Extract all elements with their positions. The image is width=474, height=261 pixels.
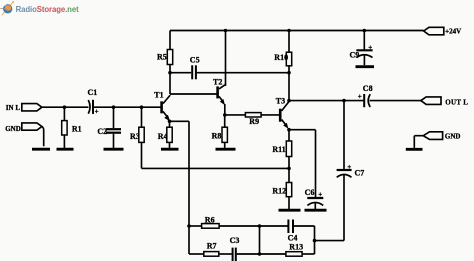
wire GND right lead [414, 136, 423, 148]
svg-text:R7: R7 [207, 242, 217, 251]
node R3 input [140, 105, 144, 109]
resistor R12 [286, 183, 291, 197]
svg-text:C7: C7 [355, 168, 365, 177]
wire feedback from T1 emitter to bottom network [170, 121, 190, 254]
node C2 input [112, 105, 116, 109]
ground R8 [216, 148, 236, 151]
wire R5 bottom lead [169, 65, 171, 73]
transistor T1 [162, 95, 171, 121]
node C5 R10 [287, 71, 291, 75]
svg-text:T2: T2 [213, 77, 222, 86]
wire C5 to R10 bottom [197, 72, 289, 74]
wire bottom ladder right vertical [314, 226, 316, 254]
svg-text:C2: C2 [97, 127, 107, 136]
wire C7 branch [343, 101, 345, 170]
wire R3 bottom to feedback node [141, 142, 143, 168]
node R1 input [63, 105, 67, 109]
svg-text:C6: C6 [305, 188, 315, 197]
wire C9 bottom lead [363, 55, 365, 65]
wire R6 to C4 [219, 225, 287, 227]
node rail C9 [363, 29, 367, 33]
svg-text:R9: R9 [249, 117, 259, 126]
ground C2 [104, 148, 124, 151]
svg-text:+24V: +24V [445, 28, 461, 36]
wire R12 bottom lead [288, 197, 290, 210]
svg-text:T1: T1 [154, 91, 163, 100]
wire R7 to C3 [219, 253, 232, 255]
node C7 bottom [313, 239, 317, 243]
resistor R4 [167, 127, 172, 142]
node ladder mid bottom [258, 252, 262, 256]
capacitor C4 [288, 220, 293, 234]
svg-text:C3: C3 [230, 236, 240, 245]
resistor R3 [139, 127, 144, 142]
svg-text:C4: C4 [288, 233, 298, 242]
resistor R1 [62, 121, 67, 135]
wire R10 bottom to T3 collector node [288, 66, 290, 101]
ground R1 [57, 148, 74, 151]
ground R4 [161, 148, 179, 151]
resistor R8 [222, 127, 227, 142]
svg-text:T3: T3 [276, 96, 285, 105]
resistor R9 [245, 113, 261, 117]
wire T3 emitter branch to C6 [289, 130, 316, 198]
capacitor C8 [364, 94, 370, 107]
wire R12 top lead [288, 168, 290, 182]
transistor T2 [218, 84, 226, 115]
svg-text:IN L: IN L [6, 104, 21, 112]
svg-text:R13: R13 [289, 243, 303, 252]
svg-text:R4: R4 [158, 132, 168, 141]
resistor R7 [204, 252, 219, 257]
terminal tag OUT L [421, 97, 441, 105]
wire node72 to C5 [170, 72, 191, 74]
wire T1 collector to T2 base [170, 93, 218, 95]
wire R1 bottom lead [63, 135, 65, 148]
terminal tag GND left [22, 123, 42, 130]
ground R12 [279, 209, 301, 212]
node R5 C5 T1 collector [168, 71, 172, 75]
svg-text:R10: R10 [274, 53, 288, 62]
terminal tag +24V [424, 27, 444, 35]
svg-text:R3: R3 [130, 132, 140, 141]
node ladder mid top [258, 224, 262, 228]
wire C2 bottom lead [113, 134, 115, 148]
capacitor C7 [337, 170, 352, 177]
svg-text:+: + [347, 163, 351, 171]
svg-text:R6: R6 [205, 215, 215, 224]
wire R10 top lead [288, 31, 290, 53]
wire C4 to right vertical [294, 225, 315, 227]
svg-text:C5: C5 [190, 55, 200, 64]
wire +24V rail [170, 30, 424, 32]
terminal tag IN L [22, 104, 42, 111]
wire R4 bottom lead [169, 142, 171, 148]
wire R8 top lead [224, 115, 226, 127]
wire row254 left [189, 253, 204, 255]
wire R11 bottom to node [288, 157, 290, 169]
node R11 R12 feedback [287, 167, 291, 171]
svg-text:C9: C9 [350, 51, 360, 60]
svg-text:R5: R5 [157, 53, 167, 62]
wire C6 bottom lead [314, 203, 316, 210]
svg-text:C8: C8 [363, 84, 373, 93]
svg-text:GND: GND [445, 132, 461, 140]
svg-text:C1: C1 [88, 88, 98, 97]
logo globe [0, 1, 14, 15]
svg-text:R12: R12 [272, 187, 286, 196]
ground C6 [305, 209, 327, 212]
capacitor C6 [307, 198, 323, 205]
node T3 emitter [287, 128, 291, 132]
node T3 collector OUT [287, 99, 291, 103]
svg-text:+: + [95, 108, 99, 116]
ground C9 [356, 65, 375, 68]
resistor R6 [202, 224, 220, 229]
node T1 emitter R4 [168, 120, 172, 124]
wire C2 top lead [113, 107, 115, 128]
svg-text:RadioStorage.net: RadioStorage.net [16, 5, 79, 14]
svg-text:+: + [368, 44, 372, 52]
wire T1 collector riser [169, 73, 171, 94]
wire R13 to right vertical [302, 253, 314, 255]
svg-text:OUT L: OUT L [445, 98, 468, 106]
node C7 OUT [342, 99, 346, 103]
transistor T3 [280, 102, 289, 129]
wire C1 to T1 base [94, 106, 161, 108]
wire R9 to T3 base [261, 114, 280, 116]
svg-text:GND: GND [5, 125, 21, 133]
node T2 emitter R8 R9 [223, 113, 227, 117]
capacitor C3 [233, 248, 236, 261]
wire R3 top lead [141, 107, 143, 127]
capacitor C1 [88, 100, 93, 114]
wire input IN tag to C1 [42, 106, 89, 108]
svg-text:R8: R8 [212, 131, 222, 140]
wire C8 to OUT tag [370, 100, 421, 102]
svg-text:R11: R11 [272, 145, 285, 154]
wire R8 bottom lead [224, 142, 226, 148]
node rail T2 [224, 29, 228, 33]
wire bottom ladder mid vertical [259, 226, 261, 254]
svg-text:R1: R1 [72, 124, 82, 133]
node R6 feedback [187, 224, 191, 228]
wire T2 emitter to R9 [225, 114, 246, 116]
node rail R10 [287, 29, 291, 33]
wire OUT from T3 collector [289, 100, 363, 102]
svg-text:+: + [318, 190, 322, 198]
ground GND right [406, 148, 423, 151]
svg-text:+: + [358, 92, 362, 100]
resistor R13 [286, 252, 302, 257]
resistor R10 [286, 52, 291, 66]
capacitor C2 [106, 129, 121, 133]
wire feedback R3 to R11/R12 node [142, 167, 290, 169]
wire T2 collector riser [225, 31, 227, 86]
wire R1 top lead [63, 107, 65, 120]
wire C3 to R13 [237, 253, 286, 255]
wire R4 top lead [169, 121, 171, 127]
terminal tag GND right [423, 132, 442, 140]
wire C7 bottom lead [315, 175, 345, 241]
wire R5 top lead [169, 31, 171, 50]
wire T3 emitter node to R11 [288, 129, 290, 142]
ground GND left [32, 148, 50, 151]
capacitor C9 [356, 50, 372, 57]
wire row226 left [189, 225, 202, 227]
wire GND left lead [42, 127, 44, 147]
capacitor C5 [192, 65, 196, 79]
resistor R5 [167, 50, 172, 65]
wire C9 top lead [363, 31, 365, 51]
resistor R11 [286, 141, 291, 157]
